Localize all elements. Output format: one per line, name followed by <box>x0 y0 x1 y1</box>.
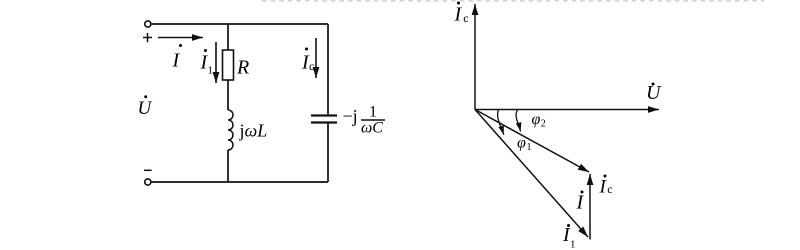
svg-text:1: 1 <box>570 238 576 250</box>
svg-text:R: R <box>236 57 249 79</box>
svg-text:U: U <box>646 82 662 104</box>
svg-text:−j: −j <box>343 106 358 126</box>
svg-text:φ: φ <box>517 134 526 151</box>
svg-text:ωC: ωC <box>361 120 383 137</box>
svg-text:c: c <box>607 182 612 196</box>
svg-text:1: 1 <box>208 65 214 77</box>
svg-text:1: 1 <box>369 104 377 121</box>
svg-text:I: I <box>454 4 463 26</box>
svg-text:I: I <box>599 177 608 198</box>
svg-text:c: c <box>309 59 314 73</box>
svg-text:1: 1 <box>527 142 532 153</box>
svg-text:I: I <box>576 192 585 214</box>
svg-text:φ: φ <box>532 111 541 128</box>
svg-text:jωL: jωL <box>239 121 268 141</box>
svg-text:I: I <box>172 50 181 72</box>
svg-text:c: c <box>463 11 468 25</box>
svg-text:U: U <box>138 98 153 119</box>
svg-text:2: 2 <box>541 119 546 130</box>
